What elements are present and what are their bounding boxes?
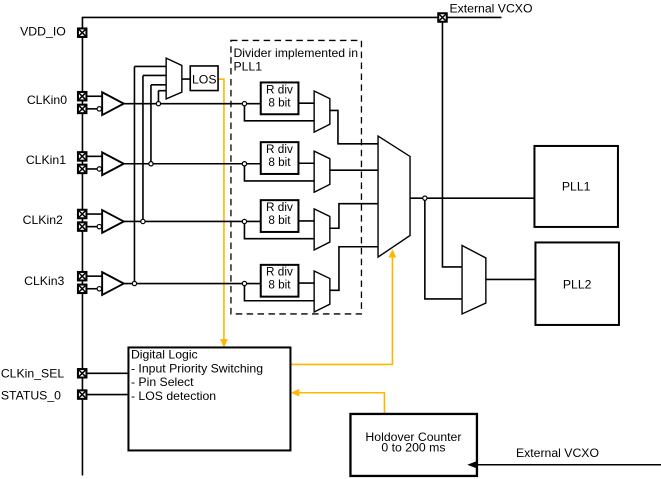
inversion bubble CLKin2 xyxy=(97,224,101,228)
svg-text:VDD_IO: VDD_IO xyxy=(20,25,66,39)
svg-text:Digital Logic: Digital Logic xyxy=(131,348,198,362)
svg-text:- Input Priority Switching: - Input Priority Switching xyxy=(131,361,263,375)
wire CLKin0 signal line xyxy=(124,103,261,105)
junction CLKin0 R-divider tap xyxy=(242,101,246,105)
wire feed to PLL2 mux lower input xyxy=(425,200,462,299)
mux PLL2 source select xyxy=(462,245,486,314)
wire R div bypass CLKin3 xyxy=(244,286,314,301)
wire LOS mux riser CLKin0 xyxy=(158,91,166,102)
inversion bubble CLKin0 xyxy=(97,107,101,111)
wire STATUS_0 to Digital Logic xyxy=(86,394,128,396)
inversion bubble CLKin3 xyxy=(97,287,101,291)
wire R div out CLKin1 xyxy=(298,162,314,164)
junction CLKin0 tap to LOS mux xyxy=(156,101,160,105)
svg-text:8 bit: 8 bit xyxy=(268,279,291,292)
svg-text:R div: R div xyxy=(266,83,293,96)
wire PLL2 mux output to PLL2 xyxy=(486,278,536,280)
svg-text:- Pin Select: - Pin Select xyxy=(131,375,194,389)
block PLL1 xyxy=(534,146,618,227)
svg-text:CLKin2: CLKin2 xyxy=(23,213,63,227)
wire divider mux 2 out to input mux xyxy=(330,204,378,229)
block LOS xyxy=(190,66,218,91)
wire LOS to Digital Logic (orange) xyxy=(218,79,224,341)
mux clock input select (4:1) xyxy=(378,136,410,257)
wire CLKin2 signal line xyxy=(124,220,261,222)
inversion bubble CLKin1 xyxy=(97,167,101,171)
arrowhead LOS to Digital Logic xyxy=(220,339,228,347)
junction CLKin1 R-divider tap xyxy=(242,162,246,166)
dashed box: Divider implemented in PLL1 xyxy=(231,40,362,314)
svg-text:External VCXO: External VCXO xyxy=(449,2,532,16)
divider block R div 8 bit (CLKin3) xyxy=(261,265,299,297)
wire input mux output to PLL1 xyxy=(410,197,534,199)
divider block R div 8 bit (CLKin1) xyxy=(261,142,299,174)
wire CLKin1- to buffer xyxy=(86,168,97,170)
wire LOS mux riser CLKin3 xyxy=(134,66,166,281)
wire CLKin0+ to buffer xyxy=(86,95,102,97)
arrowhead Digital Logic to input mux xyxy=(389,249,397,257)
wire divider mux 3 out to input mux xyxy=(330,247,378,291)
pin CLKin3 negative xyxy=(78,285,87,294)
wire divider mux 1 out to input mux xyxy=(330,169,378,171)
wire CLKin3 signal line xyxy=(124,283,261,285)
svg-text:R div: R div xyxy=(266,266,293,279)
wire R div out CLKin2 xyxy=(298,220,314,222)
wire LOS mux riser CLKin2 xyxy=(143,75,166,219)
pin VDD_IO xyxy=(78,28,87,37)
arrowhead Holdover to Digital Logic xyxy=(291,389,299,397)
mux divider-bypass (CLKin2) xyxy=(314,209,330,250)
wire Holdover Counter to Digital Logic (orange) xyxy=(297,393,384,414)
junction CLKin3 R-divider tap xyxy=(242,281,246,285)
svg-text:PLL2: PLL2 xyxy=(563,277,592,291)
wire chip left boundary xyxy=(81,17,83,476)
wire CLKin0- to buffer xyxy=(86,108,97,110)
arrowhead External VCXO into Holdover Counter xyxy=(467,461,478,469)
wire External VCXO to PLL2 mux xyxy=(442,22,462,267)
svg-text:CLKin_SEL: CLKin_SEL xyxy=(1,367,65,381)
pin CLKin2 positive xyxy=(78,210,87,219)
wire CLKin3- to buffer xyxy=(86,288,97,290)
svg-text:R div: R div xyxy=(266,143,293,156)
wire CLKin_SEL to Digital Logic xyxy=(86,372,128,374)
wire LOS mux riser CLKin1 xyxy=(151,85,166,162)
mux divider-bypass (CLKin0) xyxy=(314,91,330,132)
mux divider-bypass (CLKin1) xyxy=(314,151,330,192)
wire R div bypass CLKin2 xyxy=(244,224,314,239)
svg-text:Divider implemented in: Divider implemented in xyxy=(233,46,358,60)
junction CLKin1 tap to LOS mux xyxy=(149,162,153,166)
svg-text:8 bit: 8 bit xyxy=(268,96,291,109)
pin STATUS_0 xyxy=(78,390,87,399)
wire CLKin1+ to buffer xyxy=(86,155,102,157)
svg-text:PLL1: PLL1 xyxy=(233,60,262,74)
svg-text:STATUS_0: STATUS_0 xyxy=(1,388,61,402)
mux divider-bypass (CLKin3) xyxy=(314,271,330,312)
wire CLKin2+ to buffer xyxy=(86,213,102,215)
wire External VCXO input (bottom) xyxy=(475,464,661,466)
wire LOS mux output xyxy=(182,78,190,80)
pin CLKin_SEL xyxy=(78,369,87,378)
wire top rail to External VCXO xyxy=(82,16,502,18)
pin CLKin1 positive xyxy=(78,152,87,161)
svg-text:CLKin0: CLKin0 xyxy=(27,93,67,107)
wire CLKin1 signal line xyxy=(124,163,261,165)
svg-text:- LOS detection: - LOS detection xyxy=(131,389,216,403)
junction PLL1/PLL2 feed xyxy=(423,196,427,200)
buffer amplifier CLKin1 xyxy=(102,152,124,175)
pin CLKin3 positive xyxy=(78,272,87,281)
junction CLKin2 tap to LOS mux xyxy=(141,219,145,223)
junction CLKin2 R-divider tap xyxy=(242,219,246,223)
svg-text:External VCXO: External VCXO xyxy=(516,446,599,460)
wire Digital Logic to input mux select (orange) xyxy=(291,256,393,365)
divider block R div 8 bit (CLKin2) xyxy=(261,200,299,232)
pin External VCXO (top) xyxy=(438,13,447,22)
pin CLKin0 positive xyxy=(78,92,87,101)
buffer amplifier CLKin3 xyxy=(102,272,124,295)
divider block R div 8 bit (CLKin0) xyxy=(261,82,299,114)
svg-text:LOS: LOS xyxy=(192,72,217,86)
buffer amplifier CLKin0 xyxy=(102,92,124,115)
buffer amplifier CLKin2 xyxy=(102,210,124,233)
mux U-LOS (input monitor mux) xyxy=(166,58,182,99)
wire CLKin2- to buffer xyxy=(86,226,97,228)
svg-text:8 bit: 8 bit xyxy=(268,214,291,227)
junction CLKin3 tap to LOS mux xyxy=(132,281,136,285)
wire divider mux 0 out to input mux xyxy=(330,110,378,143)
svg-text:R div: R div xyxy=(266,201,293,214)
pin CLKin2 negative xyxy=(78,222,87,231)
svg-text:PLL1: PLL1 xyxy=(562,179,591,193)
wire R div bypass CLKin0 xyxy=(244,106,314,121)
pin CLKin0 negative xyxy=(78,105,87,114)
block Holdover Counter xyxy=(350,414,477,476)
pin CLKin1 negative xyxy=(78,165,87,174)
svg-text:CLKin1: CLKin1 xyxy=(26,153,66,167)
svg-text:8 bit: 8 bit xyxy=(268,156,291,169)
svg-text:0 to 200 ms: 0 to 200 ms xyxy=(381,441,445,455)
wire R div out CLKin0 xyxy=(298,102,314,104)
wire CLKin3+ to buffer xyxy=(86,275,102,277)
block Digital Logic xyxy=(128,347,290,450)
wire R div bypass CLKin1 xyxy=(244,166,314,181)
block PLL2 xyxy=(535,242,619,325)
wire R div out CLKin3 xyxy=(298,282,314,284)
svg-text:CLKin3: CLKin3 xyxy=(24,274,64,288)
